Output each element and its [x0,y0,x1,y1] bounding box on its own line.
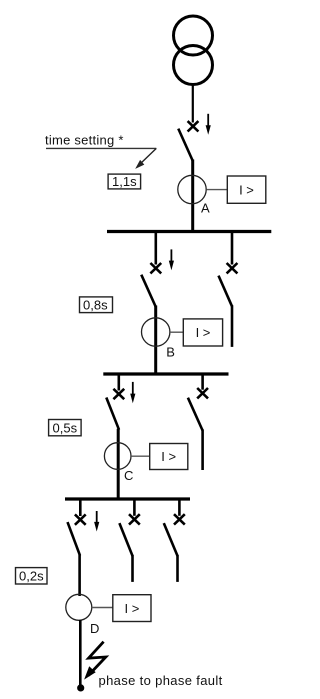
feeder switch right contact X [227,263,238,273]
feeder switch blade right of busbar 2 [188,398,203,431]
time box 0,5s [49,420,82,436]
wire busbar 3 to middle feeder switch [133,499,136,516]
load flow arrow C [130,382,135,403]
wire CT A to relay A [206,189,227,191]
CT D circle [66,594,92,620]
switch blade D [68,522,81,556]
relay A box I> [227,176,265,203]
time box 0,2s [16,568,48,584]
wire busbar 1 to feeder switch right [231,232,234,265]
svg-text:I >: I > [239,182,254,197]
relay D box I> [113,595,151,622]
middle feeder wire [131,555,134,582]
right feeder wire [176,555,179,582]
wire transformer to breaker A [192,84,194,123]
wire CT D to fault node [79,620,82,688]
switch blade B [141,275,155,307]
wire busbar 2 to feeder switch right [201,374,204,390]
wire busbar 2 to breaker C [118,374,121,391]
load flow arrow B [169,249,174,270]
breaker D contact X [75,514,86,524]
middle feeder switch contact X [129,514,140,524]
load flow arrow D [94,511,99,532]
CT B circle [142,318,170,346]
svg-text:A: A [201,201,210,216]
time box 0,8s [80,297,113,313]
switch blade A [178,129,192,161]
svg-text:time setting *: time setting * [45,133,124,148]
svg-text:I >: I > [124,601,139,616]
wire blade B to busbar 2 through CT B [154,306,157,376]
busbar 1 [107,230,271,233]
wire blade D to CT D [78,555,81,596]
wire busbar 3 to right feeder switch [178,499,181,516]
breaker C contact X [113,389,124,399]
feeder wire right of busbar 2 [201,430,204,471]
svg-text:B: B [166,344,175,359]
switch blade C [106,398,119,430]
feeder switch blade right of busbar 1 [219,276,233,307]
svg-text:I >: I > [161,449,176,464]
busbar 3 [65,497,190,500]
wire busbar 1 to breaker B [155,232,158,265]
svg-text:1,1s: 1,1s [112,174,137,189]
svg-text:0,5s: 0,5s [53,420,78,435]
leader underline [46,147,156,149]
wire CT B to relay B [170,331,183,333]
fault lightning arrow [84,642,106,680]
CT C circle [104,443,131,470]
load flow arrow A [206,114,211,135]
wire CT C to relay C [131,455,150,457]
transformer T1 winding 2 [174,46,213,85]
relay B box I> [183,319,222,346]
wire blade C to busbar 3 through CT C [117,429,120,501]
middle feeder switch blade [119,523,132,556]
fault node dot [77,684,84,691]
time box 1,1s [108,174,141,189]
leader arrow to 1,1s [135,148,156,169]
svg-text:0,2s: 0,2s [19,569,44,584]
wire blade A to busbar 1 through CT A [191,160,194,234]
svg-text:0,8s: 0,8s [83,297,108,312]
feeder switch right contact X [197,388,208,398]
svg-text:C: C [124,468,133,483]
right feeder switch contact X [174,514,185,524]
wire busbar 3 to breaker D [79,499,82,516]
wire CT D to relay D [92,607,113,609]
relay C box I> [150,444,188,470]
busbar 2 [103,372,228,375]
svg-text:D: D [90,621,99,636]
right feeder switch blade [164,523,178,556]
breaker B contact X [150,263,161,273]
svg-text:I >: I > [196,325,211,340]
CT A circle [178,175,206,203]
breaker A contact X [188,121,199,131]
feeder wire right of busbar 1 [231,305,234,347]
transformer T1 winding 1 [174,16,213,55]
svg-text:phase to phase fault: phase to phase fault [99,673,223,688]
